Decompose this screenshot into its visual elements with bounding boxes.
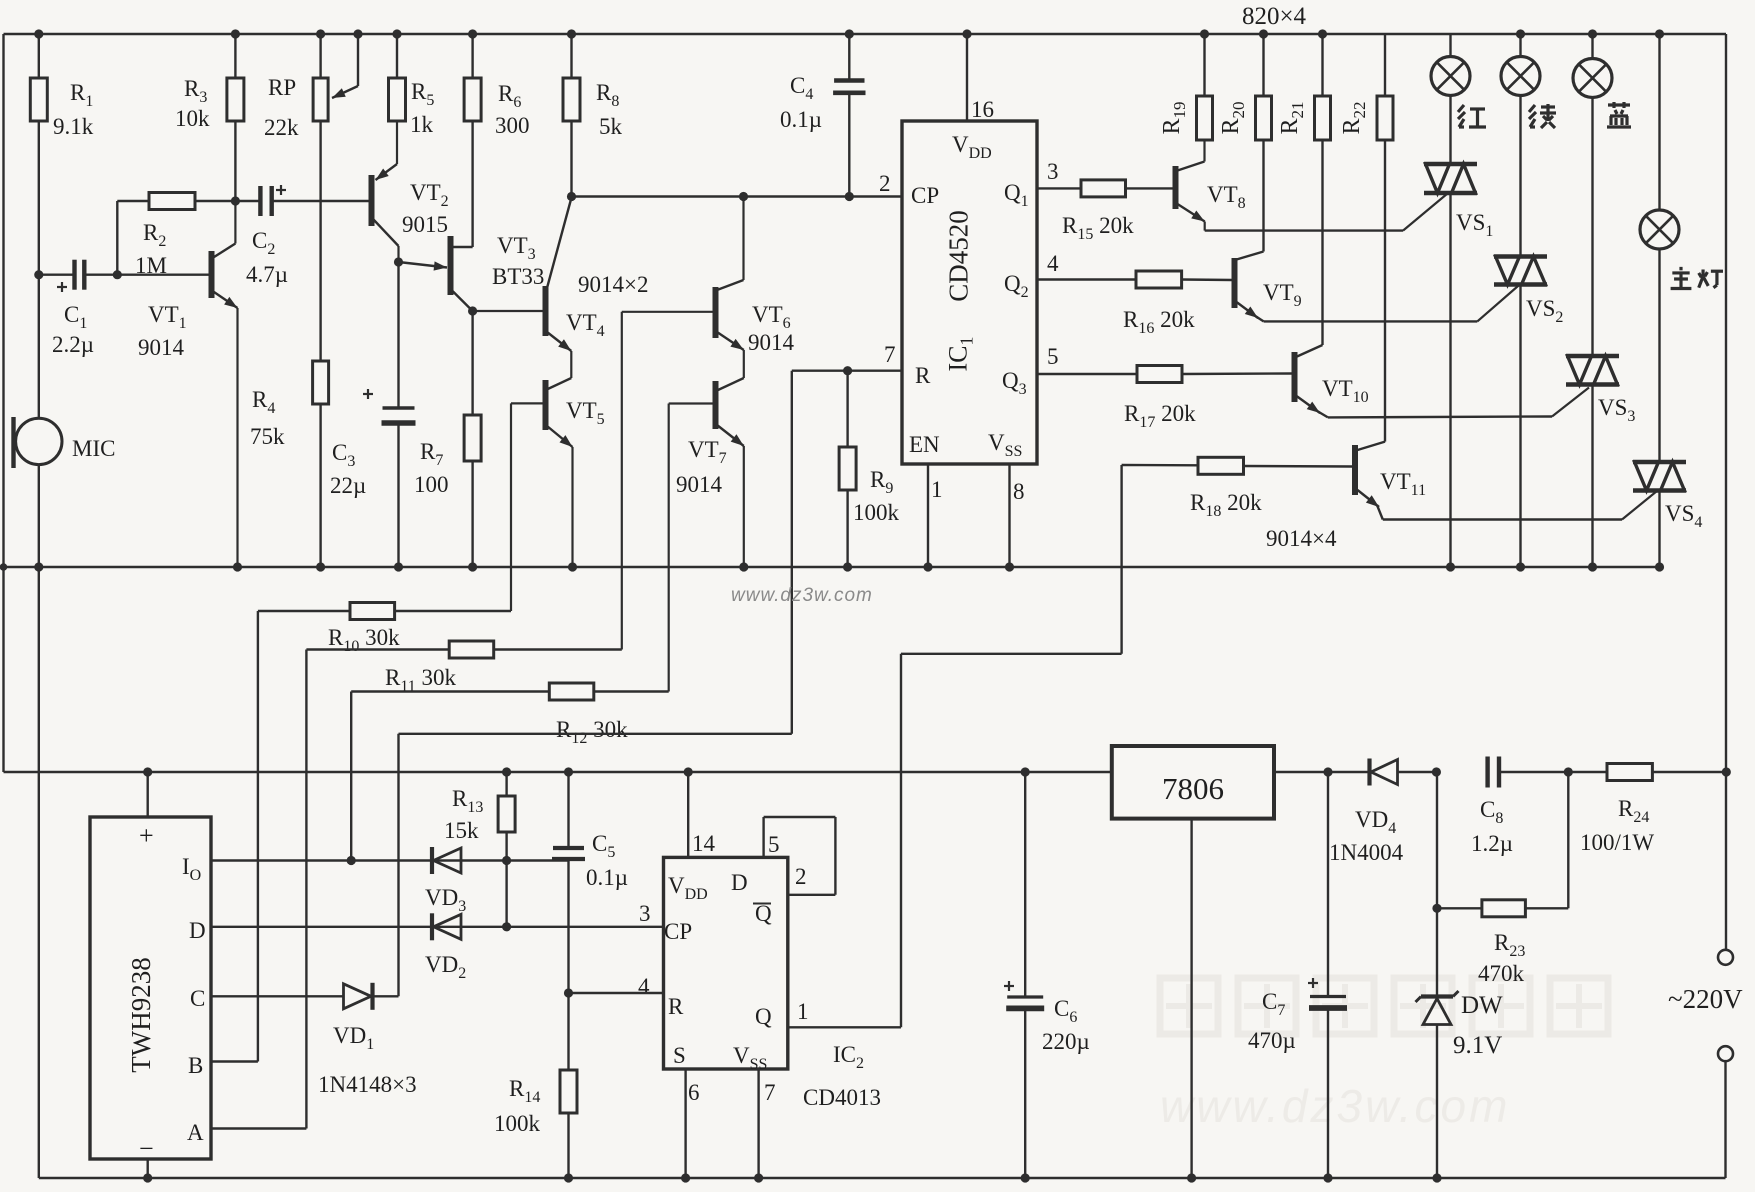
svg-text:1N4004: 1N4004 (1329, 840, 1404, 865)
resistor R11 (449, 641, 494, 658)
svg-text:470µ: 470µ (1248, 1028, 1296, 1053)
triac VS4 (1633, 460, 1686, 465)
svg-text:9.1V: 9.1V (1453, 1032, 1502, 1059)
wire Io branch to R12 (350, 692, 352, 861)
resistor R7 (471, 311, 473, 415)
lamp blue (1588, 29, 1597, 38)
svg-text:1.2µ: 1.2µ (1471, 831, 1513, 856)
wire D pin line to IC2 CP (211, 926, 664, 928)
svg-text:0.1µ: 0.1µ (586, 865, 628, 890)
svg-text:2.2µ: 2.2µ (52, 332, 94, 357)
diode VD3 (434, 848, 462, 873)
resistor R2 (116, 201, 118, 275)
wire ground bus of amplifier section (4, 566, 1660, 568)
resistor R17 (1037, 373, 1137, 375)
capacitor C7 (1327, 772, 1329, 997)
svg-text:9.1k: 9.1k (53, 114, 94, 139)
svg-text:CD4013: CD4013 (803, 1085, 881, 1110)
node C8/R24 junction (1564, 767, 1573, 776)
svg-text:22k: 22k (264, 115, 299, 140)
node D line junction (502, 922, 511, 931)
svg-text:0.1µ: 0.1µ (780, 107, 822, 132)
transistor VT11 (1352, 445, 1358, 495)
resistor R22 (1384, 34, 1386, 96)
svg-text:9014: 9014 (676, 472, 723, 497)
svg-text:CD4520: CD4520 (944, 210, 974, 302)
svg-text:3: 3 (639, 901, 651, 926)
svg-text:1: 1 (797, 999, 809, 1024)
svg-text:−: − (139, 1134, 154, 1163)
svg-text:CP: CP (911, 183, 939, 208)
terminal 220V lower (1718, 1046, 1733, 1061)
svg-text:5: 5 (1047, 344, 1059, 369)
capacitor C3 (397, 262, 399, 408)
node VD3/R13 junction (502, 856, 511, 865)
lamp red (1449, 34, 1451, 57)
svg-text:CP: CP (664, 919, 692, 944)
transistor VT10 (1292, 352, 1298, 402)
transistor VT5 (543, 380, 549, 430)
wire +6V bus (4, 771, 1112, 773)
svg-text:DW: DW (1461, 992, 1503, 1019)
wire pin 14 VDD (684, 767, 693, 776)
resistor R19 (1200, 29, 1209, 38)
wire Io pin line (211, 859, 569, 861)
transistor VT1 (209, 251, 215, 298)
svg-text:820×4: 820×4 (1242, 3, 1307, 30)
svg-text:1N4148×3: 1N4148×3 (318, 1072, 417, 1097)
triac VS1 (1424, 162, 1477, 167)
svg-text:100k: 100k (853, 500, 900, 525)
svg-text:S: S (673, 1043, 686, 1068)
svg-text:3: 3 (1047, 159, 1059, 184)
svg-text:7806: 7806 (1162, 771, 1224, 806)
pin 1 EN wire (927, 464, 929, 567)
resistor R6 (468, 29, 477, 38)
svg-text:A: A (187, 1120, 204, 1145)
resistor R21 (1318, 29, 1327, 38)
node R2 left junction (113, 270, 122, 279)
transistor VT4 (543, 286, 549, 336)
wire TWH - pin (146, 1159, 148, 1178)
svg-text:1: 1 (931, 477, 943, 502)
svg-text:100k: 100k (494, 1111, 541, 1136)
wire pin 6 S (684, 1069, 686, 1178)
svg-text:15k: 15k (444, 818, 479, 843)
microphone MIC (16, 418, 62, 464)
svg-text:~220V: ~220V (1668, 984, 1743, 1014)
wire VT9 emitter to VS2 gate (1264, 320, 1478, 322)
svg-text:BT33: BT33 (492, 264, 544, 289)
wire C pin line (211, 995, 344, 997)
svg-text:4: 4 (638, 974, 650, 999)
wire A line to R11 (211, 1127, 306, 1129)
svg-text:7: 7 (884, 342, 896, 367)
svg-text:www.dz3w.com: www.dz3w.com (1160, 1080, 1510, 1132)
svg-text:4: 4 (1047, 251, 1059, 276)
IC U2 CD4013 box (664, 857, 788, 1069)
svg-text:9014: 9014 (748, 330, 795, 355)
svg-text:9014×4: 9014×4 (1266, 526, 1337, 551)
resistor R10 (350, 603, 395, 620)
svg-text:EN: EN (909, 432, 940, 457)
wire D-Qbar feedback loop (762, 817, 764, 857)
resistor R20 (1259, 29, 1268, 38)
wire B line to R10 (211, 1060, 258, 1062)
wire C line riser to IC1 R pin (397, 734, 399, 997)
svg-text:RP: RP (268, 75, 296, 100)
svg-text:5: 5 (768, 832, 780, 857)
wire MIC column (38, 275, 40, 419)
wire IC1 R pin to A line (792, 370, 902, 372)
wire VT11 emitter to VS4 gate (1383, 518, 1622, 520)
svg-text:2: 2 (879, 171, 891, 196)
node Io/R12 junction (347, 856, 356, 865)
svg-text:6: 6 (688, 1080, 700, 1105)
transistor VT6 (713, 287, 719, 338)
node R2/R3/C2 junction (231, 196, 240, 205)
svg-text:220µ: 220µ (1042, 1029, 1090, 1054)
capacitor C5 (564, 767, 573, 776)
wire 7806 output (1274, 771, 1369, 773)
svg-text:470k: 470k (1478, 961, 1525, 986)
wire top supply bus (4, 33, 1727, 35)
svg-text:R: R (915, 363, 931, 388)
svg-text:22µ: 22µ (330, 473, 366, 498)
svg-text:14: 14 (692, 831, 716, 856)
resistor R13 (502, 767, 511, 776)
triac VS3 (1566, 354, 1619, 359)
pin 16 VDD wire (962, 29, 971, 38)
wire VT10 emitter to VS3 gate (1328, 415, 1552, 418)
wire MIC bottom to ground bus and mains rail (38, 465, 40, 567)
wire 7806 ground pin (1190, 819, 1192, 1178)
wire IC2 R pin (569, 992, 664, 994)
transistor VT3 unijunction (448, 236, 454, 295)
capacitor C6 (1021, 767, 1030, 776)
diode VD1 (344, 984, 372, 1009)
node VT3 B1 junction (468, 306, 477, 315)
svg-text:1k: 1k (410, 112, 434, 137)
resistor R12 (549, 683, 594, 700)
resistor R4 (319, 121, 321, 361)
resistor R16 (1037, 278, 1136, 280)
transistor VT7 (713, 381, 719, 429)
svg-text:B: B (188, 1053, 203, 1078)
svg-text:TWH9238: TWH9238 (126, 957, 156, 1072)
svg-text:D: D (731, 870, 748, 895)
svg-text:10k: 10k (175, 106, 210, 131)
triac VS2 (1494, 254, 1547, 259)
svg-text:Q: Q (755, 901, 772, 926)
svg-text:16: 16 (971, 97, 994, 122)
wire bottom mains rail (39, 1177, 1726, 1179)
wiper arrow of RP (353, 29, 362, 38)
wire VT8 emitter to VS1 gate (1205, 229, 1403, 231)
IC 7806 regulator box (1112, 746, 1274, 819)
svg-text:C: C (190, 986, 205, 1011)
capacitor C2 (235, 200, 260, 202)
resistor R1 (34, 29, 43, 38)
node R23 junction on DW column (1432, 904, 1441, 913)
svg-text:7: 7 (764, 1080, 776, 1105)
wire right border (220V live) (1725, 34, 1727, 950)
svg-text:8: 8 (1013, 479, 1025, 504)
wire Q output to R18 (788, 1026, 901, 1028)
svg-text:www.dz3w.com: www.dz3w.com (731, 585, 873, 606)
IC U1 CD4520 box (902, 121, 1037, 464)
svg-text:MIC: MIC (72, 436, 115, 461)
svg-text:75k: 75k (250, 424, 285, 449)
svg-text:100: 100 (414, 472, 449, 497)
resistor R3 (231, 29, 240, 38)
resistor R23 (1437, 907, 1482, 909)
resistor R18 (1122, 464, 1198, 467)
lamp main (1655, 29, 1664, 38)
svg-text:R: R (668, 994, 684, 1019)
svg-text:9014: 9014 (138, 335, 185, 360)
wire TWH + pin (143, 767, 152, 776)
watermark ghost (1160, 978, 1218, 1034)
node VT2 collector junction (394, 257, 403, 266)
terminal 220V upper (1718, 950, 1733, 965)
diode VD4 (1371, 760, 1398, 785)
wire pin 7 VSS (757, 1069, 759, 1178)
svg-text:4.7µ: 4.7µ (246, 262, 288, 287)
node R8/CP junction (567, 192, 576, 201)
resistor R8 (567, 29, 576, 38)
wire left border (2, 34, 4, 772)
svg-text:Q: Q (755, 1004, 772, 1029)
svg-text:D: D (189, 918, 206, 943)
resistor R9 (843, 366, 852, 375)
node DW column junction (1432, 767, 1441, 776)
zener diode DW (1436, 772, 1438, 997)
wire lower terminal to rail (1724, 1062, 1726, 1179)
pin 8 VSS wire (1008, 464, 1010, 567)
potentiometer RP (316, 29, 325, 38)
svg-text:9015: 9015 (402, 212, 448, 237)
resistor R24 (1568, 771, 1607, 773)
resistor R14 (567, 993, 569, 1070)
transistor VT9 (1232, 258, 1238, 308)
capacitor C8 (1485, 757, 1489, 788)
transistor VT2 (369, 175, 375, 226)
transistor VT8 (1173, 166, 1179, 209)
svg-text:9014×2: 9014×2 (578, 272, 648, 297)
diode VD2 (434, 914, 462, 939)
svg-text:100/1W: 100/1W (1580, 830, 1654, 855)
lamp green (1516, 29, 1525, 38)
node VT6 collector/CP junction (739, 192, 748, 201)
wire CP line to IC1 pin 2 (572, 195, 903, 197)
node C1/R1 junction (34, 270, 43, 279)
svg-text:2: 2 (795, 864, 807, 889)
svg-text:300: 300 (495, 113, 530, 138)
capacitor C4 (845, 29, 854, 38)
capacitor C1 (39, 274, 75, 276)
resistor R15 (1037, 187, 1081, 189)
resistor R5 (392, 29, 401, 38)
IC TWH9238 box (90, 817, 211, 1159)
node C7 junction (1323, 767, 1332, 776)
svg-text:5k: 5k (599, 114, 623, 139)
svg-text:+: + (139, 821, 154, 850)
wire C1 to VT1 base (117, 274, 209, 276)
node R pin / C5 junction (564, 988, 573, 997)
